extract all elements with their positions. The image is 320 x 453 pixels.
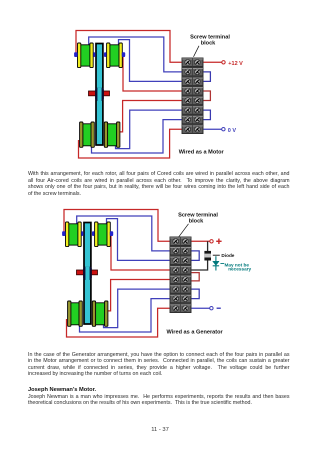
wire blue: bottom-left coil to block1 row 7 xyxy=(92,120,182,153)
terminal: top-right coil outer (diagram 2) xyxy=(110,231,113,236)
wire red: top-right coil outer terminal to block1 row 4 xyxy=(123,56,182,91)
wire red: bottom-left coil outer side to block2 row 8 xyxy=(67,308,170,337)
terminal: top-left coil outer (diagram 1) xyxy=(74,52,77,57)
wire red: bottom-left coil outer side to block1 row 8 xyxy=(79,129,182,158)
coil top-right (diagram 2) xyxy=(95,222,111,247)
svg-text:Wired as a Generator: Wired as a Generator xyxy=(167,329,224,335)
label: - output (diagram 2) xyxy=(217,307,221,309)
terminal: top-right coil inner (diagram 2) xyxy=(92,231,94,236)
terminal: top-right coil inner (diagram 1) xyxy=(104,52,106,57)
node: negative output terminal (diagram 2) xyxy=(210,307,213,310)
wire blue: bottom-left coil to block2 row 7 xyxy=(80,299,170,332)
node: positive output terminal (diagram 2) xyxy=(210,240,213,243)
jumper blue: block1 rows 6-7 xyxy=(204,110,211,120)
wire blue: top-left coil to block2 row 2 xyxy=(77,216,170,251)
label: Diode xyxy=(213,254,220,256)
svg-text:necessary: necessary xyxy=(228,267,251,272)
shaft hub at magnet (diagram 2) xyxy=(83,267,92,280)
terminal: top-left coil outer (diagram 2) xyxy=(62,231,65,236)
diode symbol (teal, may not be necessary) xyxy=(213,256,219,270)
svg-text:0 V: 0 V xyxy=(228,128,237,134)
wire blue: top-right coil to block2 row 3 xyxy=(107,219,170,261)
heading: Joseph Newman's Motor xyxy=(28,387,290,394)
coil top-left (diagram 2) xyxy=(66,222,82,247)
wire red: bottom-right coil outer side to block2 row 5 xyxy=(108,280,170,311)
leader line to block 1 xyxy=(194,46,200,57)
coil bottom-right (diagram 2) xyxy=(92,301,108,326)
coil top-right (diagram 1) xyxy=(107,43,123,68)
jumper red: block2 rows 4-5 xyxy=(192,273,200,281)
wire blue: top-left coil to block1 row 2 xyxy=(89,37,182,72)
paragraph 3 xyxy=(28,394,290,407)
coil bottom-left (diagram 2) xyxy=(68,301,83,326)
coil top-left (diagram 1) xyxy=(78,43,94,68)
jumper red: block1 rows 4-5 xyxy=(204,91,211,101)
coil bottom-left (diagram 1) xyxy=(80,122,95,147)
wire blue: block1 row 8 to negative output xyxy=(204,128,222,130)
paragraph 2 xyxy=(28,352,290,378)
terminal: top-left coil inner (diagram 1) xyxy=(93,52,95,57)
node: positive output terminal (diagram 1) xyxy=(222,61,225,64)
svg-text:+12 V: +12 V xyxy=(228,61,243,67)
label: May not be necessary xyxy=(220,263,224,265)
wire red: bottom-right coil outer side to block1 row 5 xyxy=(120,101,182,132)
wire blue: bottom-right coil to block1 row 6 xyxy=(116,110,182,149)
rotor magnet bar (diagram 1) xyxy=(89,91,110,96)
wire red: block1 row 1 to positive output xyxy=(204,61,222,63)
rotor shaft (diagram 2) xyxy=(84,223,91,325)
terminal: top-left coil inner (diagram 2) xyxy=(81,231,83,236)
wire red: block2 row 1 to positive output xyxy=(192,240,210,242)
svg-text:Diode: Diode xyxy=(221,253,234,258)
wire blue: bottom-right coil to block2 row 6 xyxy=(104,289,170,328)
rotor magnet bar (diagram 2) xyxy=(77,270,98,275)
coil bottom-right (diagram 1) xyxy=(104,122,120,147)
shaft hub at magnet (diagram 1) xyxy=(95,88,104,101)
svg-text:block: block xyxy=(201,40,216,46)
label: + output (diagram 2) xyxy=(216,239,221,244)
wire red: top-left coil outer terminal to block1 row 1 xyxy=(76,31,182,63)
jumper blue: block2 rows 2-3 xyxy=(192,251,200,261)
paragraph 1 xyxy=(28,171,290,197)
diode D1 (physical package) xyxy=(204,251,211,261)
page number xyxy=(0,427,320,434)
screw terminal block 1 (8x2) xyxy=(182,58,204,135)
svg-text:Wired as a Motor: Wired as a Motor xyxy=(179,149,225,155)
leader line to block 2 xyxy=(179,224,189,237)
rotor shaft (diagram 1) xyxy=(96,44,103,146)
wire black: diode branch from + output to block2 row 4 xyxy=(192,241,208,270)
jumper blue: block1 rows 2-3 xyxy=(204,72,211,82)
svg-text:block: block xyxy=(189,218,204,224)
wire red: top-right coil outer terminal to block2 row 4 xyxy=(111,235,170,270)
wire blue: top-right coil to block1 row 3 xyxy=(119,40,182,82)
wire blue: block2 row 8 to negative output xyxy=(192,307,210,309)
wire red: top-left coil outer terminal to block2 row 1 xyxy=(64,210,170,242)
screw terminal block 2 (8x2) xyxy=(170,237,192,314)
node: negative output terminal (diagram 1) xyxy=(222,128,225,131)
jumper blue: block2 rows 6-7 xyxy=(192,289,200,299)
terminal: top-right coil outer (diagram 1) xyxy=(122,52,125,57)
label: Screw terminal block (diagram 2) xyxy=(178,213,218,225)
label: Screw terminal block (diagram 1) xyxy=(190,35,230,47)
